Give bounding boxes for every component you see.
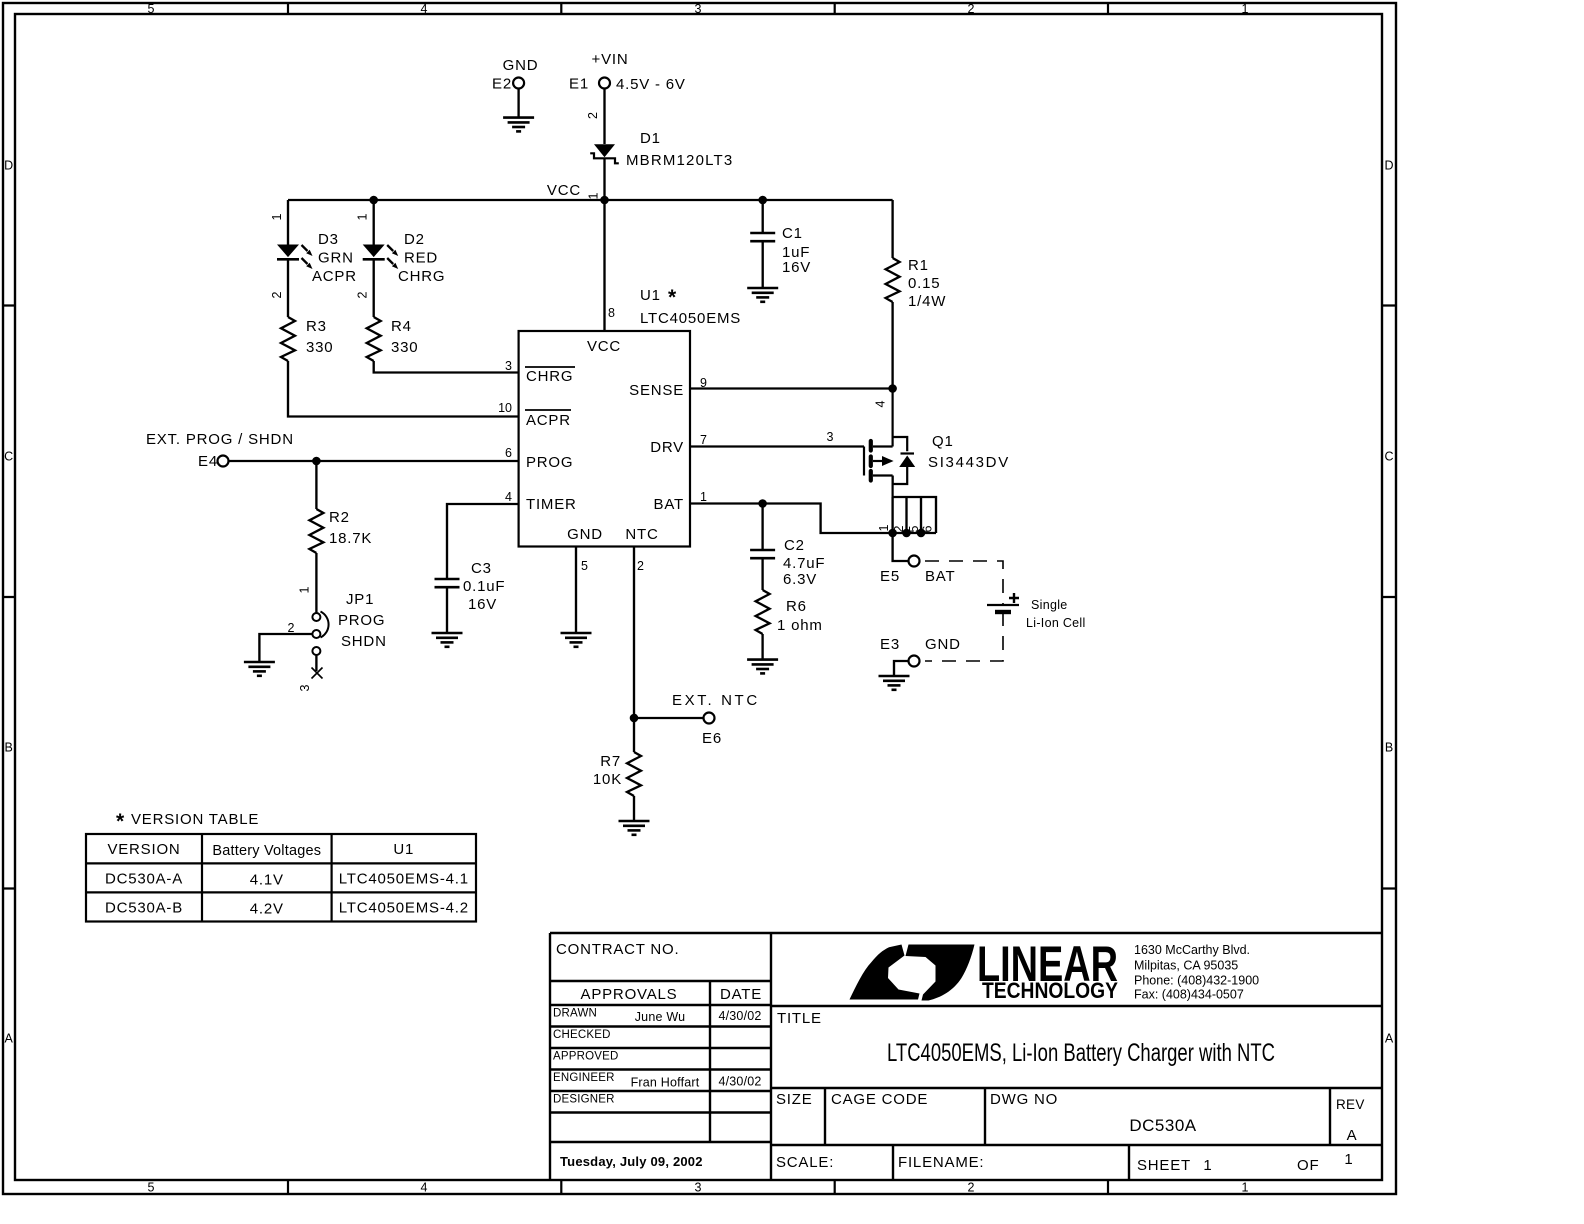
svg-text:LTC4050EMS-4.1: LTC4050EMS-4.1 [339,871,469,888]
svg-text:2: 2 [968,2,975,16]
wire D3 to R3 [287,259,289,317]
svg-text:330: 330 [391,339,418,356]
wire D2 to R4 [373,259,375,317]
svg-text:0.1uF: 0.1uF [463,578,505,595]
svg-text:TITLE: TITLE [777,1010,822,1027]
svg-text:SI3443DV: SI3443DV [928,454,1009,471]
svg-text:10K: 10K [593,771,622,788]
svg-text:MBRM120LT3: MBRM120LT3 [626,152,733,169]
svg-text:1: 1 [298,586,312,593]
Linear Technology logo [850,936,1119,1003]
svg-text:C2: C2 [784,537,805,554]
junction SENSE [888,384,897,393]
svg-text:RED: RED [404,250,438,267]
svg-text:E4: E4 [198,453,218,470]
wire BAT pin1 [690,504,893,534]
svg-text:330: 330 [306,339,333,356]
svg-text:GND: GND [503,57,539,74]
svg-text:BAT: BAT [925,568,955,585]
resistor R7 [627,752,641,796]
svg-text:E1: E1 [569,76,589,93]
svg-text:APPROVALS: APPROVALS [581,986,678,1003]
pin box [893,497,936,533]
ground R7 [619,821,650,835]
svg-text:GND: GND [925,636,961,653]
battery cell [987,604,1019,606]
svg-text:1: 1 [1242,1181,1249,1195]
svg-text:B: B [5,740,13,754]
wire VCC pin8 [603,200,605,331]
svg-text:LTC4050EMS, Li-Ion Battery Cha: LTC4050EMS, Li-Ion Battery Charger with … [887,1039,1275,1067]
svg-text:PROG: PROG [526,454,573,471]
svg-text:1/4W: 1/4W [908,293,946,310]
svg-text:C1: C1 [782,225,803,242]
svg-text:Fran Hoffart: Fran Hoffart [631,1076,700,1090]
svg-text:A: A [5,1031,14,1045]
svg-text:FILENAME:: FILENAME: [898,1154,984,1171]
svg-text:R1: R1 [908,257,929,274]
svg-text:ACPR: ACPR [312,268,357,285]
capacitor C2 [750,550,775,558]
svg-text:D: D [1384,158,1393,172]
wire R3 to ACPR pin10 [288,361,519,417]
wire R2 to JP1 [315,553,317,613]
svg-text:D1: D1 [640,130,661,147]
ground JP1 [244,662,275,676]
svg-text:TIMER: TIMER [526,496,577,513]
junction src2 [902,529,911,538]
svg-text:R7: R7 [600,753,621,770]
wire E2-gnd [517,89,519,118]
wire C2 to R6 [761,558,763,590]
svg-text:CHRG: CHRG [526,368,573,385]
svg-text:GND: GND [567,526,603,543]
svg-text:0.15: 0.15 [908,275,940,292]
svg-text:U1: U1 [393,841,414,858]
svg-text:3: 3 [695,2,702,16]
svg-text:18.7K: 18.7K [329,530,372,547]
dashed link to battery [925,561,1003,661]
terminal E4 [218,456,229,467]
resistor R3 [281,317,295,361]
terminal E6 [704,713,715,724]
svg-text:2: 2 [586,112,600,119]
svg-text:1: 1 [877,524,891,531]
wire to E5 [893,533,909,561]
svg-text:1: 1 [1242,2,1249,16]
svg-text:GRN: GRN [318,250,354,267]
svg-text:1630 McCarthy Blvd.: 1630 McCarthy Blvd. [1134,943,1250,957]
wire E3 to gnd [894,661,908,676]
wire R4 to CHRG pin3 [374,361,519,373]
svg-text:B: B [1385,740,1393,754]
svg-text:SHDN: SHDN [341,633,387,650]
svg-text:CONTRACT NO.: CONTRACT NO. [556,941,680,958]
ground C1 [747,288,778,302]
svg-text:5: 5 [581,559,588,573]
svg-text:4/30/02: 4/30/02 [718,1075,761,1089]
svg-text:4: 4 [421,2,428,16]
capacitor C3 [435,579,460,587]
svg-text:ENGINEER: ENGINEER [553,1072,615,1084]
svg-text:E6: E6 [702,730,722,747]
svg-text:C: C [4,449,13,463]
svg-text:4.1V: 4.1V [250,872,284,889]
svg-text:Single: Single [1031,598,1068,612]
LED D2 [363,245,399,270]
wire JP1-3 stub [315,655,317,671]
svg-text:1: 1 [1203,1157,1212,1174]
svg-text:CHRG: CHRG [398,268,445,285]
wire E1 to D1 [603,89,605,145]
svg-text:TECHNOLOGY: TECHNOLOGY [982,978,1118,1003]
svg-text:6.3V: 6.3V [783,571,817,588]
svg-text:2: 2 [356,291,370,298]
wire R1 to SENSE node [891,302,893,389]
svg-text:JP1: JP1 [346,591,374,608]
resistor R1 [886,258,900,302]
svg-text:SIZE: SIZE [776,1091,813,1108]
svg-text:REV: REV [1336,1097,1365,1112]
svg-text:5: 5 [148,2,155,16]
svg-text:1: 1 [700,490,707,504]
svg-text:2: 2 [270,291,284,298]
svg-text:Milpitas, CA 95035: Milpitas, CA 95035 [1134,959,1238,973]
resistor R4 [367,317,381,361]
svg-text:4.2V: 4.2V [250,901,284,918]
svg-text:2: 2 [968,1181,975,1195]
capacitor C1 [750,233,775,241]
wire DRV pin7 to gate [690,445,864,447]
ground C3 [432,633,463,647]
svg-text:EXT. PROG / SHDN: EXT. PROG / SHDN [146,431,294,448]
svg-text:7: 7 [700,433,707,447]
junction src1 [888,529,897,538]
pin box left [891,497,893,533]
wire to C2 [761,504,763,551]
svg-text:3: 3 [695,1181,702,1195]
svg-text:16V: 16V [782,259,811,276]
svg-text:CAGE CODE: CAGE CODE [831,1091,928,1108]
svg-text:R3: R3 [306,318,327,335]
ground E3 [879,676,910,690]
svg-text:Battery Voltages: Battery Voltages [212,843,321,859]
title block frame [550,933,1382,1180]
diode D1 (Schottky) [590,144,619,163]
terminal E5 [909,556,920,567]
svg-text:3: 3 [505,359,512,373]
wire R6 to gnd [761,634,763,660]
svg-text:Fax: (408)434-0507: Fax: (408)434-0507 [1134,988,1244,1002]
svg-text:VCC: VCC [547,182,581,199]
svg-text:D2: D2 [404,231,425,248]
svg-text:DRV: DRV [650,439,684,456]
svg-text:E5: E5 [880,568,900,585]
svg-text:Li-Ion Cell: Li-Ion Cell [1026,616,1086,630]
junction BAT/C2 [758,499,767,508]
svg-text:A: A [1385,1031,1394,1045]
svg-text:1: 1 [270,213,284,220]
pin box bottom rail [893,532,936,534]
svg-text:E3: E3 [880,636,900,653]
svg-text:CHECKED: CHECKED [553,1029,611,1041]
svg-text:*: * [668,286,677,309]
svg-text:16V: 16V [468,596,497,613]
junction VCC/D1 [600,196,609,205]
svg-text:Tuesday, July 09, 2002: Tuesday, July 09, 2002 [560,1154,703,1169]
wire TIMER pin4 to C3 [447,504,519,579]
plus mark [1009,593,1019,603]
svg-text:U1: U1 [640,287,661,304]
resistor R6 [756,590,770,634]
svg-text:3: 3 [298,684,312,691]
svg-text:C: C [1384,449,1393,463]
svg-text:4: 4 [505,490,512,504]
svg-text:4: 4 [874,400,888,407]
wire to R2 [315,461,317,509]
svg-text:D: D [4,158,13,172]
svg-text:1: 1 [1344,1151,1353,1168]
svg-text:LTC4050EMS-4.2: LTC4050EMS-4.2 [339,900,469,917]
wire GND pin5 [575,547,577,634]
svg-text:C3: C3 [471,560,492,577]
svg-text:4/30/02: 4/30/02 [718,1009,761,1023]
wire C3 to gnd [446,587,448,633]
wire VCC rail [288,199,893,201]
svg-text:D3: D3 [318,231,339,248]
svg-text:SENSE: SENSE [629,382,684,399]
wire SENSE pin9 [690,387,893,389]
svg-text:2: 2 [637,559,644,573]
wire VCC to C1 [762,200,764,233]
wire to R7 [633,718,635,752]
svg-text:10: 10 [498,401,512,415]
svg-text:R4: R4 [391,318,412,335]
wire PROG pin6 [229,460,519,462]
terminal E3 [909,656,920,667]
svg-text:6: 6 [505,446,512,460]
junction PROG/R2 [312,457,321,466]
svg-text:A: A [1347,1127,1358,1144]
svg-text:DRAWN: DRAWN [553,1008,597,1020]
svg-text:Q1: Q1 [932,433,954,450]
junction VCC/D2 [369,196,378,205]
svg-text:DWG NO: DWG NO [990,1091,1058,1108]
svg-text:4: 4 [421,1181,428,1195]
transistor Q1 SI3443DV [864,389,914,498]
svg-text:PROG: PROG [338,612,385,629]
wire VCC to D3 [287,200,289,245]
junction src5 [917,529,926,538]
svg-text:3: 3 [827,430,834,444]
ground E2 [503,118,534,132]
no-connect X [312,668,323,679]
svg-text:DC530A-A: DC530A-A [105,871,183,888]
ground R6 [747,660,778,674]
svg-text:5: 5 [148,1181,155,1195]
svg-text:BAT: BAT [654,496,684,513]
svg-text:LTC4050EMS: LTC4050EMS [640,310,741,327]
svg-text:1: 1 [587,192,601,199]
svg-text:DATE: DATE [720,986,762,1003]
svg-text:NTC: NTC [625,526,658,543]
junction VCC/C1 [758,196,767,205]
svg-text:DC530A-B: DC530A-B [105,900,183,917]
svg-text:R2: R2 [329,509,350,526]
svg-text:8: 8 [608,306,615,320]
svg-text:4.5V - 6V: 4.5V - 6V [616,76,686,93]
svg-text:VERSION TABLE: VERSION TABLE [131,811,259,828]
svg-text:SHEET: SHEET [1137,1157,1191,1174]
op-amp U1 LTC4050EMS body [519,331,690,547]
svg-text:Phone: (408)432-1900: Phone: (408)432-1900 [1134,974,1259,988]
svg-text:June Wu: June Wu [635,1010,686,1024]
ground U1 [561,633,592,647]
wire NTC pin2 [633,547,635,719]
wire JP1-2 to gnd [259,634,312,662]
svg-text:DESIGNER: DESIGNER [553,1094,615,1106]
svg-text:ACPR: ACPR [526,412,571,429]
svg-text:OF: OF [1297,1157,1319,1174]
svg-text:+VIN: +VIN [592,51,629,68]
wire C1 to gnd [762,241,764,288]
terminal E2 [513,78,524,89]
svg-text:SCALE:: SCALE: [776,1154,834,1171]
svg-text:APPROVED: APPROVED [553,1051,619,1063]
svg-text:DC530A: DC530A [1129,1116,1196,1135]
svg-text:4.7uF: 4.7uF [783,555,825,572]
wire D1 to VCC rail [603,158,605,200]
svg-text:1 ohm: 1 ohm [777,617,823,634]
jumper JP1 [312,612,328,656]
svg-text:*: * [116,810,125,833]
svg-text:VERSION: VERSION [107,841,180,858]
svg-text:R6: R6 [786,598,807,615]
svg-text:E2: E2 [492,76,512,93]
junction NTC/E6 [630,714,639,723]
wire to E6 [634,717,703,719]
svg-text:VCC: VCC [587,338,621,355]
LED D3 [277,245,313,270]
wire VCC to D2 [373,200,375,245]
wire VCC to R1 [891,200,893,258]
wire R7 to gnd [633,796,635,821]
resistor R2 [309,509,323,553]
terminal E1 [599,78,610,89]
svg-text:1: 1 [356,213,370,220]
